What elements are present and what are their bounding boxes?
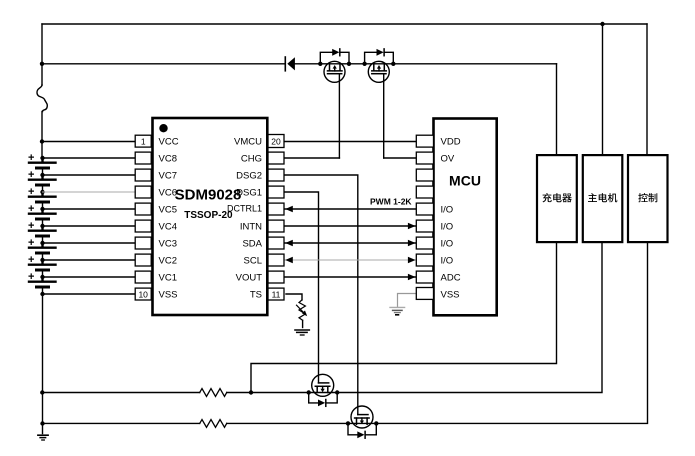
- node Q3 left: [307, 390, 311, 394]
- svg-text:CHG: CHG: [241, 154, 262, 165]
- svg-text:VOUT: VOUT: [236, 273, 263, 284]
- resistor R2: [200, 420, 227, 428]
- wire Q2 gate to MCU OV: [384, 157, 417, 159]
- wire left vertical bottom: [42, 294, 44, 434]
- wire charge rail B right: [295, 63, 557, 65]
- svg-text:VC4: VC4: [159, 222, 177, 233]
- diode D4 body of Q3: [309, 393, 338, 407]
- pin box VC8: [135, 152, 151, 164]
- wire DCTRL1 row: [284, 208, 416, 210]
- node rail B junction: [40, 62, 44, 66]
- wire Q2 gate to OV: [383, 74, 385, 158]
- node Q2 right: [391, 62, 395, 66]
- pin box VC2: [135, 254, 151, 266]
- svg-text:1: 1: [141, 137, 146, 147]
- pin box SDA: [268, 237, 284, 249]
- wire MCU VSS to ground: [398, 294, 417, 308]
- pin box VC6: [135, 186, 151, 198]
- wire tap VC5: [43, 208, 136, 210]
- battery cell B6: [28, 237, 56, 260]
- pin box DSG1: [268, 186, 284, 198]
- fuse F1: [37, 85, 47, 112]
- pin box SCL: [268, 254, 284, 266]
- mosfet Q4: [351, 406, 373, 428]
- node Q2 left: [362, 62, 366, 66]
- thermistor RT1: [297, 300, 308, 320]
- mosfet Q1: [324, 61, 345, 82]
- node Q1 right: [347, 62, 351, 66]
- battery cell B8: [28, 271, 56, 294]
- pin box ADC: [416, 271, 433, 283]
- arrow into MCU IO3: [408, 240, 416, 246]
- ground MCU: [390, 307, 405, 314]
- pin box VDD: [416, 135, 433, 147]
- pin box IO3: [416, 237, 433, 249]
- pin box VCC 1: [135, 135, 151, 147]
- pin box VC4: [135, 220, 151, 232]
- IC U1 SDM9028: [153, 118, 268, 315]
- wire VSS to pin10: [43, 293, 136, 295]
- wire charger top: [556, 64, 558, 155]
- wire VMCU to VDD: [284, 141, 416, 143]
- battery cell B5: [28, 220, 56, 243]
- pin box VSS 10: [135, 288, 151, 300]
- wire CHG to Q1 gate: [284, 157, 339, 159]
- svg-text:VDD: VDD: [441, 137, 461, 148]
- wire control top: [646, 24, 648, 155]
- pin box VC3: [135, 237, 151, 249]
- battery cell B3: [28, 186, 56, 209]
- svg-text:VC8: VC8: [159, 154, 177, 165]
- wire top rail PACK+: [42, 23, 647, 25]
- wire tap VC1: [43, 276, 136, 278]
- wire VOUT to ADC: [284, 276, 416, 278]
- pin box DCTRL1: [268, 203, 284, 215]
- node rail1 charger branch: [249, 390, 253, 394]
- diode D1: [285, 57, 295, 71]
- label main motor: [588, 193, 617, 202]
- wire bottom rail1 left: [42, 392, 199, 394]
- diode D3 body of Q2: [365, 49, 394, 64]
- pin box VOUT: [268, 271, 284, 283]
- wire tap VC2: [43, 259, 136, 261]
- node Q4 left: [346, 421, 350, 425]
- node top rail motor branch: [600, 22, 604, 26]
- arrow into ADC: [408, 274, 416, 280]
- wire Q1 gate to CHG: [338, 74, 340, 158]
- svg-text:VC2: VC2: [159, 256, 177, 267]
- svg-text:VC3: VC3: [159, 239, 177, 250]
- svg-text:SCL: SCL: [244, 256, 262, 267]
- wire tap VC7: [43, 174, 136, 176]
- svg-text:VC7: VC7: [159, 171, 177, 182]
- svg-text:MCU: MCU: [449, 173, 481, 189]
- pin box NC1: [416, 169, 433, 181]
- svg-text:20: 20: [271, 137, 281, 147]
- svg-text:TSSOP-20: TSSOP-20: [184, 210, 233, 221]
- label charger: [543, 193, 572, 202]
- wire charge rail B left: [42, 63, 285, 65]
- mosfet Q2: [368, 61, 389, 82]
- ground thermistor: [295, 330, 309, 335]
- battery cell B4: [28, 203, 56, 226]
- node Q4 right: [374, 421, 378, 425]
- svg-text:I/O: I/O: [441, 256, 454, 267]
- wire DSG2 to Q4 gate: [284, 175, 358, 415]
- svg-text:ADC: ADC: [441, 273, 461, 284]
- wire INTN row: [284, 225, 416, 227]
- wire tap VC4: [43, 225, 136, 227]
- arrow into DCTRL1: [285, 206, 293, 212]
- MCU U2: [434, 119, 497, 316]
- mosfet Q3: [312, 374, 334, 396]
- node Q1 left: [318, 62, 322, 66]
- wire tap VC6: [43, 191, 136, 193]
- pin box VC5: [135, 203, 151, 215]
- node bottom rail2 junction: [40, 421, 44, 425]
- diode D2 body of Q1: [320, 49, 349, 64]
- svg-text:INTN: INTN: [240, 222, 262, 233]
- battery cell B7: [28, 254, 56, 277]
- node bottom rail1 junction: [40, 390, 44, 394]
- pin box TS 11: [268, 288, 284, 300]
- svg-text:VSS: VSS: [441, 290, 460, 301]
- arrow into SDA: [285, 240, 293, 246]
- wire SCL row: [284, 259, 416, 261]
- wire motor top: [602, 24, 604, 155]
- label control: [638, 193, 657, 202]
- block main motor: [583, 155, 623, 242]
- wire DSG1 to Q3 gate: [284, 192, 319, 383]
- svg-text:OV: OV: [441, 154, 455, 165]
- node VSS junction: [40, 292, 44, 296]
- svg-text:VSS: VSS: [159, 290, 178, 301]
- wire tap VC8: [43, 157, 136, 159]
- pin box IO1: [416, 203, 433, 215]
- node Q3 right: [335, 390, 339, 394]
- svg-text:SDA: SDA: [242, 239, 262, 250]
- block control: [628, 155, 668, 242]
- pin box VSS2: [416, 288, 433, 300]
- pin box IO4: [416, 254, 433, 266]
- pin box DSG2: [268, 169, 284, 181]
- svg-text:TS: TS: [250, 290, 262, 301]
- wire bottom rail2 right: [227, 242, 648, 423]
- svg-text:PWM 1-2K: PWM 1-2K: [370, 197, 412, 207]
- pin box VMCU 20: [268, 135, 284, 148]
- svg-text:DSG2: DSG2: [236, 171, 262, 182]
- ground main: [38, 435, 48, 440]
- pin box VC7: [135, 169, 151, 181]
- svg-text:VC1: VC1: [159, 273, 177, 284]
- arrow into SCL: [285, 257, 293, 263]
- wire left vertical to battery: [41, 112, 43, 159]
- battery cell B1: [28, 152, 56, 175]
- battery cell B2: [28, 169, 56, 192]
- block charger: [537, 155, 577, 242]
- svg-text:VMCU: VMCU: [234, 137, 262, 148]
- wire thermistor to ground: [302, 320, 304, 327]
- svg-text:I/O: I/O: [441, 239, 454, 250]
- pin box VC1: [135, 271, 151, 283]
- diode D5 body of Q4: [348, 423, 376, 438]
- wire charger return: [251, 242, 557, 392]
- svg-text:I/O: I/O: [441, 222, 454, 233]
- arrow into MCU IO2: [408, 223, 416, 229]
- wire tap VC3: [43, 242, 136, 244]
- svg-text:11: 11: [272, 290, 281, 300]
- node VCC junction: [40, 139, 44, 143]
- svg-text:VCC: VCC: [159, 137, 179, 148]
- wire left vertical top: [41, 24, 43, 85]
- pin box OV: [416, 152, 433, 164]
- pin box CHG: [268, 152, 284, 164]
- svg-text:I/O: I/O: [441, 205, 454, 216]
- wire VCC to pin1: [42, 141, 135, 143]
- wire bottom rail2 left: [43, 422, 200, 424]
- pin box IO2: [416, 220, 433, 232]
- wire TS to thermistor: [286, 294, 302, 300]
- svg-text:VC5: VC5: [159, 205, 177, 216]
- arrow into MCU IO4: [408, 257, 416, 263]
- pin box NC2: [416, 186, 433, 198]
- wire bottom rail1 right: [227, 242, 602, 392]
- svg-text:10: 10: [138, 290, 148, 300]
- resistor R1: [200, 389, 227, 397]
- svg-text:SDM9028: SDM9028: [175, 187, 242, 204]
- pin box INTN: [268, 220, 284, 232]
- wire SDA row: [284, 242, 416, 244]
- pin1 mark: [159, 124, 167, 132]
